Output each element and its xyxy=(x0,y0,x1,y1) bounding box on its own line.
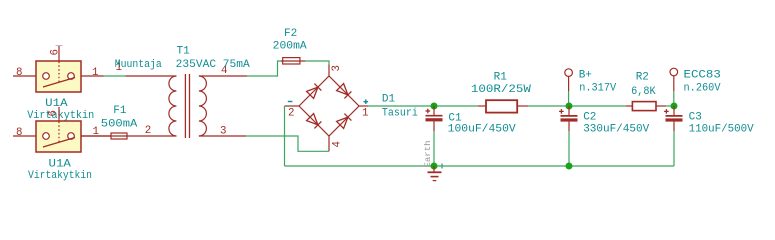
svg-text:F1: F1 xyxy=(113,105,127,117)
svg-text:2: 2 xyxy=(288,107,294,119)
svg-text:F2: F2 xyxy=(284,28,297,40)
resistor R1 xyxy=(478,100,529,112)
bridge D1 pin 3 lead xyxy=(329,65,343,77)
svg-text:100R/25W: 100R/25W xyxy=(471,84,531,96)
bridge D1 diamond xyxy=(299,76,359,136)
wire: B+ stub to rail xyxy=(568,91,570,106)
node: R2 / ECC83 / C3 junction xyxy=(671,103,678,110)
svg-text:8: 8 xyxy=(16,127,22,139)
wire: C1 bottom to 0V rail xyxy=(433,131,435,166)
svg-text:1: 1 xyxy=(92,67,98,79)
wire: bridge pin 2 down to 0V rail xyxy=(284,106,286,166)
switch U1A bottom: pin 6 lead xyxy=(48,107,60,121)
bridge D1 pin 2 lead (minus) xyxy=(285,102,300,120)
node: earth / C1 bottom junction xyxy=(431,163,438,170)
switch U1A top: pin 1 lead xyxy=(81,67,104,79)
svg-text:6: 6 xyxy=(50,49,62,55)
bridge D1 pin 4 lead xyxy=(329,136,343,151)
svg-text:100uF/450V: 100uF/450V xyxy=(448,124,516,136)
bridge D1 pin 1 lead (plus) xyxy=(359,99,368,119)
svg-text:4: 4 xyxy=(331,141,343,147)
node: C1 top junction xyxy=(431,103,438,110)
wire: bridge pin 1 to C1 node xyxy=(368,105,478,107)
bridge D1 labels xyxy=(382,94,418,120)
svg-text:8: 8 xyxy=(16,67,22,79)
switch U1A top: pin 8 lead xyxy=(13,67,36,79)
transformer T1 core xyxy=(185,74,189,138)
switch U1A bottom: pin 1 lead xyxy=(81,126,111,138)
transformer T1 primary winding xyxy=(169,76,176,136)
svg-text:Earth: Earth xyxy=(423,141,433,168)
svg-text:n.317V: n.317V xyxy=(579,83,616,95)
svg-text:3: 3 xyxy=(331,65,343,71)
capacitor C2 xyxy=(559,106,577,131)
wire: C2 bottom to 0V rail xyxy=(568,131,570,166)
node: C2 bottom junction xyxy=(566,163,573,170)
svg-text:2: 2 xyxy=(145,125,151,137)
wire: ECC83 stub to rail xyxy=(673,91,675,106)
switch U1A top: labels xyxy=(27,98,94,122)
svg-text:6,8K: 6,8K xyxy=(631,86,656,98)
wire: R2 to C3 node xyxy=(666,105,674,107)
svg-text:C2: C2 xyxy=(583,111,596,123)
svg-text:500mA: 500mA xyxy=(101,119,138,131)
supply ECC83 xyxy=(670,68,678,91)
switch U1A bottom: body xyxy=(36,121,81,152)
switch U1A top: pin 6 lead xyxy=(50,46,63,62)
svg-text:B+: B+ xyxy=(579,70,592,82)
capacitor C3 xyxy=(664,106,682,131)
supply B+ labels xyxy=(579,70,617,95)
svg-text:Muuntaja: Muuntaja xyxy=(115,59,162,71)
svg-text:Virtakytkin: Virtakytkin xyxy=(28,170,92,182)
svg-text:Virtakytkin: Virtakytkin xyxy=(27,110,94,122)
capacitor C1 xyxy=(426,106,443,131)
switch U1A bottom: labels xyxy=(28,159,92,183)
svg-text:R1: R1 xyxy=(494,71,508,83)
svg-text:235VAC 75mA: 235VAC 75mA xyxy=(176,59,250,71)
transformer T1 secondary winding xyxy=(199,76,207,136)
svg-text:ECC83: ECC83 xyxy=(684,70,721,82)
switch U1A top: body xyxy=(36,61,81,92)
supply B+ xyxy=(565,69,573,91)
svg-text:D1: D1 xyxy=(382,94,396,106)
svg-text:Tasuri: Tasuri xyxy=(382,107,418,119)
wire: C3 bottom to 0V rail xyxy=(673,131,675,166)
wire: fuse F2 to bridge pin 3 xyxy=(306,61,329,65)
capacitor C2 labels xyxy=(583,111,649,135)
svg-text:R2: R2 xyxy=(636,72,649,84)
transformer T1 pin 1 lead xyxy=(116,62,177,76)
node: B+ / C2 junction xyxy=(566,103,573,110)
svg-text:1: 1 xyxy=(362,107,368,119)
transformer T1 pin 3 lead xyxy=(199,126,246,138)
wire: switch U1A top pin1 to transformer pin1 xyxy=(104,75,126,77)
svg-text:330uF/450V: 330uF/450V xyxy=(583,124,649,136)
capacitor C1 labels xyxy=(448,113,516,136)
bridge D1 diode bottom-right xyxy=(337,114,352,129)
svg-text:3: 3 xyxy=(220,126,226,138)
svg-text:T1: T1 xyxy=(177,46,191,58)
resistor R2 xyxy=(626,102,666,111)
svg-text:6: 6 xyxy=(48,110,60,116)
transformer T1 labels xyxy=(115,46,250,71)
bridge D1 diode top-right xyxy=(337,84,352,99)
svg-text:200mA: 200mA xyxy=(273,40,307,52)
fuse F2 body xyxy=(283,58,300,64)
svg-text:C3: C3 xyxy=(689,111,702,123)
svg-text:110uF/500V: 110uF/500V xyxy=(689,124,754,136)
switch U1A bottom: pin 8 lead xyxy=(13,127,36,139)
svg-text:U1A: U1A xyxy=(45,98,68,110)
transformer T1 pin 4 lead xyxy=(199,65,247,77)
resistor R2 labels xyxy=(631,72,656,98)
svg-text:n.260V: n.260V xyxy=(684,83,721,95)
capacitor C3 labels xyxy=(689,111,754,135)
bridge D1 diode left-bottom xyxy=(307,114,322,129)
wire: transformer pin4 to fuse F2 xyxy=(247,61,283,76)
bridge D1 diode left-top xyxy=(307,84,322,99)
wire: 0V bottom rail xyxy=(285,165,675,167)
fuse F2 lead line xyxy=(281,60,306,62)
wire: R1 to B+ node to R2 xyxy=(528,105,625,107)
wire: transformer pin3 to bridge pin 4 xyxy=(246,136,329,151)
earth symbol xyxy=(428,164,443,181)
fuse F1 labels xyxy=(101,105,138,130)
fuse F1 body xyxy=(111,133,127,139)
fuse F2 labels xyxy=(273,28,307,52)
fuse F1 lead line xyxy=(81,135,176,137)
resistor R1 labels xyxy=(471,71,531,96)
supply ECC83 labels xyxy=(684,70,721,95)
svg-text:U1A: U1A xyxy=(49,159,72,171)
